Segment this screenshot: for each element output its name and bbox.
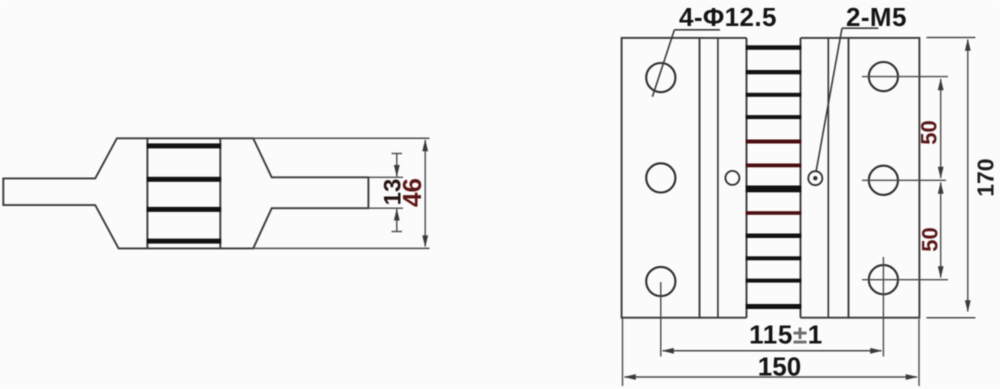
svg-text:115±1: 115±1 xyxy=(749,320,823,350)
extension line from body top edge xyxy=(253,137,429,139)
ladder resistance bar 2 xyxy=(746,70,802,74)
extension line from left bottom hole xyxy=(660,282,662,357)
ladder resistance bar 5 xyxy=(746,140,802,144)
extension line 150 left xyxy=(622,319,624,387)
ladder resistance bar 9 xyxy=(746,234,802,239)
label 4-dia12.5 underline xyxy=(674,29,720,31)
top edge right connector xyxy=(801,37,849,39)
side view resistor column right edge xyxy=(219,138,221,248)
extension tick tongue bottom xyxy=(368,207,403,209)
extension line 170 bottom xyxy=(926,317,975,319)
bottom edge right connector xyxy=(801,317,849,319)
extension line 170 top xyxy=(926,37,975,39)
M5 hole left xyxy=(725,171,739,185)
mounting hole left bottom (Φ12.5) xyxy=(646,267,675,296)
ladder resistance bar 10 xyxy=(746,256,802,260)
center line right bottom hole xyxy=(862,279,948,281)
ladder resistance bar 1 xyxy=(746,45,802,50)
M5 hole right xyxy=(808,171,822,185)
side view strip bar 2 xyxy=(147,177,222,182)
dimension 115 line xyxy=(663,350,882,352)
ladder resistance bar 7 xyxy=(746,186,802,193)
ladder resistance bar 4 xyxy=(746,115,802,119)
extension line 150 right xyxy=(918,319,920,386)
mounting hole right middle (Φ12.5) xyxy=(869,166,898,195)
ladder resistance bar 11 xyxy=(746,279,802,283)
inner vertical line left strip xyxy=(717,38,719,318)
side view shunt body outline xyxy=(3,138,368,248)
label 2-M5 leader line xyxy=(816,28,842,171)
mounting hole right top (Φ12.5) xyxy=(869,62,898,91)
dimension 13 upper arrow xyxy=(396,154,398,177)
top edge left connector xyxy=(700,37,747,39)
mounting hole right bottom (Φ12.5) xyxy=(869,265,898,294)
extension line from right bottom hole xyxy=(882,257,884,357)
ladder resistance bar 3 xyxy=(746,93,802,97)
right terminal block xyxy=(849,38,920,318)
mounting hole left top (Φ12.5) xyxy=(646,63,675,92)
M5 hole right leader dot xyxy=(813,176,817,180)
bottom edge left connector xyxy=(700,317,747,319)
extension line from body bottom edge xyxy=(253,247,429,249)
ladder resistance bar 6 xyxy=(746,164,802,168)
side view strip bar 4 xyxy=(147,239,222,244)
label 4-dia12.5 leader line xyxy=(652,30,674,97)
side view strip bar 1 xyxy=(147,143,222,148)
svg-text:46: 46 xyxy=(397,178,427,207)
svg-text:50: 50 xyxy=(918,227,943,251)
resistor ladder left wall xyxy=(746,38,748,318)
dimension 13 lower arrow xyxy=(396,209,398,232)
dimension 50 lower line xyxy=(940,183,942,278)
inner vertical line right strip xyxy=(827,38,829,318)
ladder resistance bar 12 xyxy=(746,304,802,309)
dimension 50 upper line xyxy=(940,79,942,178)
resistor ladder right wall xyxy=(800,38,802,318)
ladder resistance bar 8 xyxy=(746,211,802,215)
mounting hole left middle (Φ12.5) xyxy=(646,163,675,192)
side view strip bar 3 xyxy=(147,207,222,212)
left terminal block xyxy=(622,38,700,318)
center line right middle hole xyxy=(862,179,946,181)
svg-text:4-Φ12.5: 4-Φ12.5 xyxy=(679,2,777,32)
side view resistor column left edge xyxy=(146,138,148,248)
center line right top hole xyxy=(862,76,948,78)
svg-text:150: 150 xyxy=(758,352,801,382)
extension tick tongue top xyxy=(368,176,403,178)
label 2-M5 underline xyxy=(842,27,878,29)
dimension 150 line xyxy=(625,376,918,378)
svg-text:170: 170 xyxy=(973,158,999,196)
svg-text:50: 50 xyxy=(917,120,942,144)
dimension 46 line xyxy=(424,140,426,247)
dimension 170 line xyxy=(967,40,969,312)
